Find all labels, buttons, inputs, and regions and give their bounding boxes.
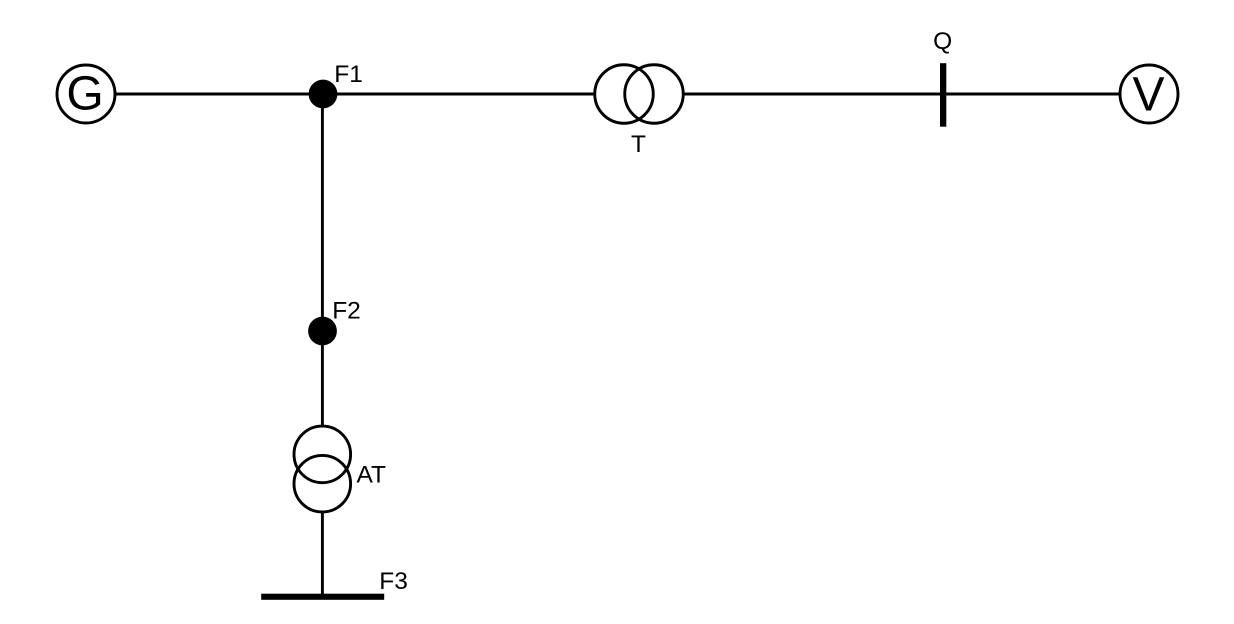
svg-text:V: V <box>1132 69 1164 122</box>
svg-text:F3: F3 <box>379 568 408 595</box>
generator G <box>57 65 115 123</box>
node F1 <box>309 61 363 109</box>
node F2 <box>308 297 361 345</box>
breaker Q <box>933 28 952 127</box>
svg-text:AT: AT <box>357 462 387 489</box>
autotransformer AT <box>294 426 386 512</box>
wire: vertical branch from node F1 down to ground <box>321 94 324 597</box>
svg-text:G: G <box>66 68 103 121</box>
svg-text:T: T <box>631 131 646 158</box>
svg-text:Q: Q <box>933 28 952 55</box>
svg-text:F2: F2 <box>332 297 361 324</box>
wire: main horizontal bus from G to V <box>116 93 1119 96</box>
ground F3 <box>261 568 408 600</box>
transformer T <box>595 65 684 158</box>
voltmeter V <box>1120 65 1178 123</box>
svg-text:F1: F1 <box>334 61 363 88</box>
